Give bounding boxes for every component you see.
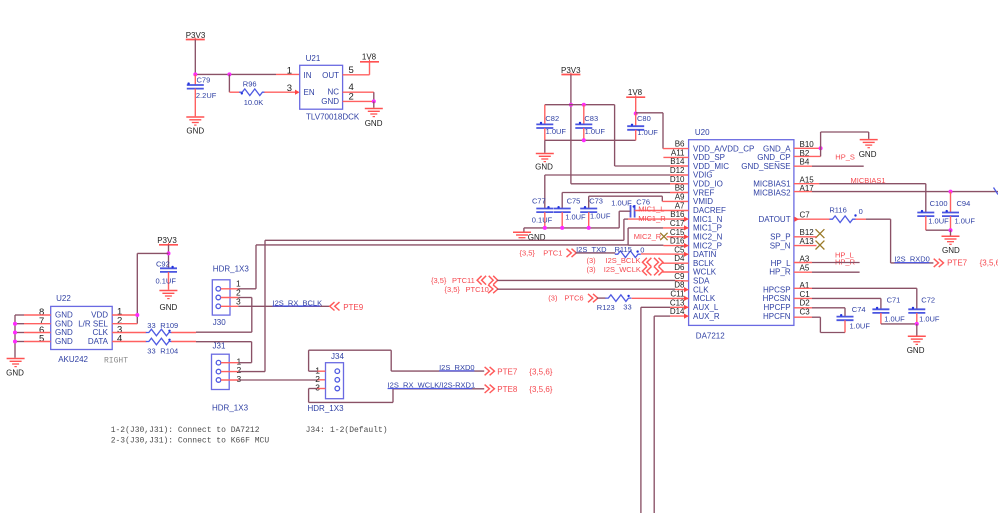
junction VDD branch bbox=[167, 251, 171, 255]
wire node row to U21 IN bbox=[195, 73, 299, 75]
power 1V8 (U21) bbox=[360, 53, 379, 62]
svg-text:DACREF: DACREF bbox=[693, 206, 726, 215]
U22 pin numbers bbox=[39, 307, 122, 345]
svg-text:PTE9: PTE9 bbox=[343, 303, 364, 312]
wire J34 pin3 to PTE8 bbox=[309, 389, 485, 403]
wire pin5 gnd bbox=[15, 341, 51, 343]
pin arrow C17 bbox=[684, 225, 689, 230]
junction NC/GND bbox=[372, 99, 376, 103]
svg-text:D12: D12 bbox=[670, 166, 685, 175]
junction C94 top bbox=[949, 190, 953, 194]
wire C82 gnd drop bbox=[544, 140, 546, 153]
svg-text:D10: D10 bbox=[670, 175, 685, 184]
wire B6 stub bbox=[663, 148, 689, 150]
wire J30 pin1 bbox=[221, 288, 256, 290]
wire CLK pin3 to R109 bbox=[112, 332, 146, 334]
resistor R123 33 bbox=[597, 295, 632, 312]
wire branch down to R96 bbox=[229, 74, 239, 92]
U20 left pin names bbox=[693, 144, 754, 320]
wire R104 to J31 pin1 bbox=[171, 342, 251, 363]
svg-text:C79: C79 bbox=[197, 76, 211, 85]
wire VDIG from C77 bbox=[545, 174, 689, 176]
svg-text:B4: B4 bbox=[800, 158, 810, 167]
svg-text:A15: A15 bbox=[800, 175, 815, 184]
svg-text:1.0UF: 1.0UF bbox=[884, 314, 905, 323]
net label I2S_TXD bbox=[576, 245, 607, 254]
svg-text:HDR_1X3: HDR_1X3 bbox=[212, 404, 249, 413]
svg-text:VMID: VMID bbox=[693, 197, 713, 206]
no-connect X on A13 bbox=[816, 241, 825, 250]
junction C83 bottom bbox=[582, 138, 586, 142]
svg-text:MICBIAS1: MICBIAS1 bbox=[851, 176, 886, 185]
wire P3V3 down to node bbox=[194, 40, 196, 75]
capacitor C80 bbox=[627, 114, 658, 141]
net label I2S_RX_WCLK/I2S-RXD1 bbox=[388, 381, 476, 390]
svg-text:GND: GND bbox=[942, 246, 960, 255]
svg-text:CLK: CLK bbox=[693, 285, 709, 294]
svg-text:R116: R116 bbox=[829, 206, 846, 215]
svg-text:0.1UF: 0.1UF bbox=[532, 215, 553, 224]
svg-text:C80: C80 bbox=[637, 114, 651, 123]
wire A11 stub bbox=[663, 156, 688, 158]
svg-text:NC: NC bbox=[327, 88, 339, 97]
svg-text:1.0UF: 1.0UF bbox=[955, 216, 976, 225]
ground HP_S bbox=[859, 140, 878, 159]
U20 left pin number labels bbox=[670, 140, 685, 317]
svg-text:{3,5,6}: {3,5,6} bbox=[529, 385, 552, 394]
wire D14 AUX_R down to bottom bbox=[654, 316, 688, 513]
svg-text:AUX_L: AUX_L bbox=[693, 303, 719, 312]
wire PTC10 to D8 CLK bbox=[497, 288, 688, 291]
svg-text:GND: GND bbox=[55, 328, 73, 337]
svg-text:C71: C71 bbox=[887, 295, 901, 304]
svg-text:A5: A5 bbox=[800, 263, 810, 272]
offpage I2S_BCLK bbox=[587, 256, 664, 267]
svg-text:33: 33 bbox=[147, 346, 155, 355]
wire DATA pin4 to R104 bbox=[112, 341, 146, 343]
wire D2 HPCFP to C74 bbox=[794, 308, 845, 317]
svg-text:D16: D16 bbox=[670, 237, 685, 246]
svg-text:C15: C15 bbox=[670, 228, 685, 237]
power P3V3 (top-left) bbox=[186, 31, 206, 40]
svg-text:GND: GND bbox=[55, 337, 73, 346]
connector J30 HDR_1X3 bbox=[212, 265, 249, 328]
capacitor C100 bbox=[917, 199, 949, 230]
wire C71-C72 bottom rail bbox=[881, 323, 917, 325]
svg-text:DATOUT: DATOUT bbox=[758, 215, 790, 224]
pin arrow D16 bbox=[684, 243, 689, 248]
svg-text:C9: C9 bbox=[674, 272, 685, 281]
svg-text:1.0UF: 1.0UF bbox=[585, 127, 606, 136]
svg-text:P3V3: P3V3 bbox=[186, 31, 206, 40]
ground under U22 bbox=[6, 359, 24, 378]
svg-text:HDR_1X3: HDR_1X3 bbox=[308, 404, 345, 413]
svg-text:1.0UF: 1.0UF bbox=[850, 322, 871, 331]
svg-text:{3,5}: {3,5} bbox=[520, 249, 536, 258]
offpage PTC11 bbox=[431, 276, 498, 285]
svg-text:R109: R109 bbox=[160, 321, 178, 330]
connector J31 HDR_1X3 bbox=[212, 341, 249, 412]
svg-text:GND: GND bbox=[535, 162, 553, 171]
svg-text:U20: U20 bbox=[695, 128, 710, 137]
capacitor C76 (horizontal) bbox=[611, 198, 650, 218]
svg-text:(3): (3) bbox=[548, 293, 558, 302]
offpage PTE8 bbox=[485, 385, 553, 395]
svg-text:(3): (3) bbox=[587, 265, 597, 274]
svg-text:AUX_R: AUX_R bbox=[693, 312, 720, 321]
junction pin7 bbox=[13, 322, 17, 326]
U22 pin names bbox=[55, 311, 109, 347]
svg-text:3: 3 bbox=[315, 382, 320, 392]
wire C15 MIC2_N stub bbox=[667, 236, 689, 238]
wire L/R SEL pin2 bbox=[112, 323, 137, 325]
capacitor C79 bbox=[187, 74, 217, 116]
svg-text:HPCFP: HPCFP bbox=[763, 303, 790, 312]
wire C100-C94 bottom rail bbox=[926, 229, 951, 231]
wire bottom rail C82-C80 bbox=[545, 139, 636, 141]
svg-text:C11: C11 bbox=[670, 290, 685, 299]
wire R116 to PTE7 bbox=[856, 219, 934, 263]
wire A7 DACREF from C76 bbox=[635, 210, 689, 212]
wire R96 to EN pin bbox=[264, 91, 295, 93]
svg-text:HPCSN: HPCSN bbox=[763, 294, 791, 303]
svg-text:33: 33 bbox=[623, 302, 631, 311]
wire D4 BCLK stub bbox=[662, 262, 688, 264]
wire J34 pin1 to PTE7 bbox=[309, 350, 485, 371]
svg-text:P3V3: P3V3 bbox=[157, 236, 177, 245]
svg-text:MIC2_P: MIC2_P bbox=[693, 241, 722, 250]
wire C7 DATOUT to R116 bbox=[794, 218, 830, 220]
svg-text:GND: GND bbox=[160, 303, 178, 312]
svg-text:C72: C72 bbox=[921, 295, 935, 304]
pin arrow D14 bbox=[684, 314, 689, 319]
svg-text:GND: GND bbox=[55, 311, 73, 320]
svg-text:CLK: CLK bbox=[92, 328, 108, 337]
wire down to ground bbox=[373, 101, 375, 107]
svg-text:GND: GND bbox=[907, 346, 925, 355]
svg-text:VREF: VREF bbox=[693, 188, 714, 197]
svg-text:OUT: OUT bbox=[322, 71, 339, 80]
svg-text:A9: A9 bbox=[675, 193, 685, 202]
svg-text:J31: J31 bbox=[213, 341, 226, 350]
svg-text:VDD_MIC: VDD_MIC bbox=[693, 162, 729, 171]
resistor R116 0 bbox=[829, 206, 862, 223]
svg-text:MIC1_N: MIC1_N bbox=[693, 215, 723, 224]
svg-text:GND: GND bbox=[321, 97, 339, 106]
svg-text:2: 2 bbox=[349, 91, 354, 102]
svg-text:HDR_1X3: HDR_1X3 bbox=[213, 265, 250, 274]
svg-text:D6: D6 bbox=[674, 263, 685, 272]
wire C75 top lead bbox=[561, 193, 563, 209]
ground under C82 bbox=[535, 154, 554, 172]
wire R123 to C11 MCLK bbox=[632, 297, 689, 299]
svg-text:VDD: VDD bbox=[91, 311, 108, 320]
U20 right pin number labels bbox=[800, 140, 815, 316]
junction at C79 top bbox=[193, 72, 197, 76]
offpage I2S_WCLK bbox=[587, 265, 664, 276]
resistor R104 33 bbox=[146, 338, 178, 355]
ground under C94 bbox=[942, 236, 961, 255]
offpage PTE9 bbox=[330, 302, 364, 312]
wire gnd riser and top run bbox=[821, 132, 869, 156]
svg-text:C17: C17 bbox=[670, 219, 685, 228]
wire B10 GND_A stub bbox=[794, 147, 821, 149]
svg-text:1.0UF: 1.0UF bbox=[928, 216, 949, 225]
svg-text:D2: D2 bbox=[800, 299, 811, 308]
svg-text:AKU242: AKU242 bbox=[58, 355, 88, 364]
capacitor C77 bbox=[532, 196, 554, 228]
pin arrow C11 bbox=[684, 296, 689, 301]
svg-text:1-2(J30,J31): Connect to DA721: 1-2(J30,J31): Connect to DA7212 bbox=[111, 426, 260, 435]
wire C13 AUX_L down to bottom bbox=[641, 307, 689, 513]
svg-text:B14: B14 bbox=[670, 157, 685, 166]
resistor R115 0 bbox=[615, 245, 645, 258]
svg-text:R96: R96 bbox=[243, 80, 257, 89]
capacitor C75 bbox=[554, 196, 586, 228]
capacitor C82 bbox=[536, 105, 566, 141]
wire A15 MICBIAS1 bbox=[794, 184, 926, 213]
svg-text:J34:: J34: bbox=[306, 426, 325, 435]
net label I2S_RXD0 (right) bbox=[894, 255, 929, 264]
wire P3V3 down to C92 bbox=[168, 245, 170, 268]
junction C83 top bbox=[582, 103, 586, 107]
svg-text:HP_S: HP_S bbox=[835, 152, 855, 161]
svg-text:C75: C75 bbox=[567, 196, 581, 205]
svg-text:HP_R: HP_R bbox=[769, 268, 791, 277]
svg-text:1.0UF: 1.0UF bbox=[546, 127, 567, 136]
wire J30 pin3 to PTE9 bbox=[221, 305, 330, 307]
offpage PTC1 bbox=[520, 249, 577, 258]
junction C77 bbox=[543, 226, 547, 230]
wire VDD pin1 bbox=[112, 314, 137, 316]
U21 pin names bbox=[304, 71, 340, 106]
svg-text:B6: B6 bbox=[675, 140, 685, 149]
svg-text:MIC2_N: MIC2_N bbox=[693, 233, 723, 242]
svg-text:MIC2_R: MIC2_R bbox=[634, 232, 662, 241]
svg-text:SDA: SDA bbox=[693, 277, 710, 286]
svg-text:1.0UF: 1.0UF bbox=[565, 212, 586, 221]
svg-text:{3,5,6: {3,5,6 bbox=[980, 259, 998, 268]
svg-text:PTE8: PTE8 bbox=[497, 385, 518, 394]
pin arrow B16 bbox=[684, 217, 689, 222]
wire branch to VDD riser bbox=[137, 253, 168, 323]
svg-text:U22: U22 bbox=[56, 294, 71, 303]
wire 1V8 over to B6/A11 bbox=[636, 113, 663, 149]
junction C73 bbox=[587, 226, 591, 230]
IC U20 DA7212 box bbox=[689, 128, 794, 341]
svg-text:C74: C74 bbox=[852, 305, 866, 314]
svg-text:33: 33 bbox=[147, 321, 155, 330]
svg-text:VDD_SP: VDD_SP bbox=[693, 153, 725, 162]
svg-text:0: 0 bbox=[859, 207, 863, 216]
svg-text:1.0UF: 1.0UF bbox=[637, 128, 658, 137]
svg-text:DATA: DATA bbox=[88, 337, 109, 346]
svg-text:MCLK: MCLK bbox=[693, 294, 716, 303]
J34 pin numbers bbox=[315, 366, 320, 393]
svg-text:MIC1_L: MIC1_L bbox=[638, 205, 664, 214]
wire A5 HP_R stub bbox=[794, 271, 860, 273]
ground under U21 bbox=[365, 109, 383, 129]
pin arrow D8 bbox=[684, 287, 689, 292]
pin arrow C13 bbox=[684, 305, 689, 310]
wire C17 MIC1_P bbox=[628, 228, 689, 245]
long wire MIC1_R to J31 pin2 bbox=[265, 240, 624, 371]
svg-text:EN: EN bbox=[304, 88, 315, 97]
junction C94 bottom bbox=[949, 228, 953, 232]
junction C80 top bbox=[634, 112, 638, 116]
wire A13 SP_N stub bbox=[794, 245, 817, 247]
ground under C79 bbox=[186, 117, 204, 136]
capacitor C92 bbox=[156, 260, 178, 290]
wire PTC6 to R123 bbox=[597, 297, 606, 299]
wire VREF from C75 bbox=[562, 192, 688, 194]
svg-text:L/R SEL: L/R SEL bbox=[78, 319, 108, 328]
wire A3 HP_L stub bbox=[794, 262, 860, 264]
svg-text:1-2(Default): 1-2(Default) bbox=[330, 426, 388, 435]
wire P3V3 down to VDD_IO corner bbox=[570, 75, 572, 184]
wire rail down to VDD_MIC bbox=[615, 105, 689, 166]
wire gnd rail under C77 caps bbox=[524, 227, 619, 229]
junction VDD bbox=[135, 313, 139, 317]
svg-text:VDD_A/VDD_CP: VDD_A/VDD_CP bbox=[693, 144, 754, 153]
svg-text:(3): (3) bbox=[587, 256, 597, 265]
wire D6 WCLK stub bbox=[662, 271, 688, 273]
junction C72 bottom bbox=[915, 322, 919, 326]
net label I2S_RX_BCLK bbox=[273, 298, 323, 307]
svg-text:C100: C100 bbox=[930, 199, 948, 208]
svg-text:D8: D8 bbox=[674, 281, 685, 290]
svg-text:C7: C7 bbox=[800, 211, 811, 220]
wire B2 GND_CP stub bbox=[794, 155, 821, 157]
net label I2S_RXD0 (bottom) bbox=[439, 363, 474, 372]
capacitor C72 bbox=[908, 295, 940, 324]
svg-text:{3,5,6}: {3,5,6} bbox=[529, 368, 552, 377]
resistor R109 33 bbox=[146, 321, 178, 336]
svg-text:DA7212: DA7212 bbox=[696, 332, 725, 341]
offpage PTC10 bbox=[445, 285, 498, 294]
wire J31 pin1 bbox=[221, 362, 252, 364]
svg-text:C1: C1 bbox=[800, 290, 811, 299]
wire J31 pin2 bbox=[221, 371, 265, 373]
wire B4 GND_SENSE stub bbox=[794, 165, 864, 167]
svg-text:I2S_WCLK: I2S_WCLK bbox=[604, 265, 641, 274]
svg-text:GND: GND bbox=[859, 150, 877, 159]
offpage PTC6 bbox=[548, 293, 598, 302]
offpage PTE7 (right) bbox=[934, 259, 998, 268]
wire A1 HPCSP to C72 bbox=[794, 288, 917, 309]
svg-text:1: 1 bbox=[287, 66, 292, 77]
offpage edge mark bbox=[994, 188, 998, 195]
junction pin6 bbox=[13, 331, 17, 335]
svg-text:A13: A13 bbox=[800, 237, 815, 246]
svg-text:MIC1_P: MIC1_P bbox=[693, 224, 722, 233]
J31 pin numbers bbox=[237, 356, 242, 384]
wire D16 MIC2_P bbox=[628, 244, 689, 246]
wire pin6 gnd bbox=[15, 332, 51, 334]
svg-text:BCLK: BCLK bbox=[693, 259, 715, 268]
junction B10 bbox=[819, 146, 823, 150]
svg-text:C3: C3 bbox=[800, 307, 811, 316]
svg-text:J34: J34 bbox=[331, 352, 344, 361]
J30 pin numbers bbox=[236, 279, 241, 307]
svg-text:SP_P: SP_P bbox=[770, 233, 790, 242]
wire pin7 gnd bbox=[15, 323, 51, 325]
svg-text:D14: D14 bbox=[670, 307, 685, 316]
capacitor C94 bbox=[942, 192, 975, 231]
svg-text:J30: J30 bbox=[213, 318, 226, 327]
wire VMID from C73 bbox=[589, 196, 689, 201]
svg-text:B8: B8 bbox=[675, 184, 685, 193]
junction P3V3 top rail bbox=[569, 103, 573, 107]
svg-text:D4: D4 bbox=[674, 254, 685, 263]
svg-text:C73: C73 bbox=[589, 196, 603, 205]
wire PTC1 to R115 bbox=[576, 252, 616, 254]
connector J34 HDR_1X3 bbox=[308, 352, 345, 413]
J31 pin circles bbox=[216, 360, 221, 382]
svg-text:10.0K: 10.0K bbox=[244, 98, 264, 107]
svg-text:GND: GND bbox=[365, 119, 383, 128]
svg-text:1.0UF: 1.0UF bbox=[919, 314, 940, 323]
pin arrow C15 bbox=[684, 234, 689, 239]
svg-text:3: 3 bbox=[237, 374, 242, 384]
capacitor C83 bbox=[575, 105, 605, 141]
wire pin8 gnd bbox=[15, 315, 51, 358]
ground under C92 bbox=[159, 291, 177, 312]
J34 pin circles bbox=[335, 369, 340, 391]
svg-text:PTE7: PTE7 bbox=[497, 368, 518, 377]
svg-text:HP_L: HP_L bbox=[771, 259, 792, 268]
svg-text:1.0UF: 1.0UF bbox=[590, 211, 611, 220]
svg-text:C92: C92 bbox=[156, 260, 170, 269]
svg-text:P3V3: P3V3 bbox=[561, 66, 581, 75]
svg-text:C13: C13 bbox=[670, 298, 685, 307]
ground under C72 bbox=[907, 336, 926, 354]
wire OUT to 1V8 bbox=[343, 62, 370, 75]
svg-text:A7: A7 bbox=[675, 201, 685, 210]
svg-text:0: 0 bbox=[640, 245, 644, 254]
svg-text:5: 5 bbox=[39, 334, 44, 345]
wire VDD_IO from P3V3 bbox=[571, 183, 689, 185]
svg-text:GND: GND bbox=[186, 127, 204, 136]
wire top rail C82-C83 bbox=[545, 104, 615, 106]
wire J31 pin3 to J34 pin2 bbox=[221, 379, 326, 381]
svg-text:{3,5}: {3,5} bbox=[445, 285, 461, 294]
svg-text:R115: R115 bbox=[615, 245, 632, 254]
svg-text:1V8: 1V8 bbox=[628, 88, 643, 97]
svg-text:TLV70018DCK: TLV70018DCK bbox=[306, 113, 360, 122]
svg-text:RIGHT: RIGHT bbox=[104, 357, 128, 366]
IC U22 AKU242 box bbox=[51, 294, 112, 364]
svg-text:C94: C94 bbox=[957, 199, 971, 208]
svg-text:WCLK: WCLK bbox=[693, 268, 717, 277]
svg-text:C5: C5 bbox=[674, 245, 685, 254]
svg-text:MIC1_R: MIC1_R bbox=[638, 214, 666, 223]
svg-text:GND_A: GND_A bbox=[763, 144, 791, 153]
wire 1V8 down bbox=[635, 97, 637, 113]
svg-text:3: 3 bbox=[287, 83, 292, 94]
pin arrow EN bbox=[295, 90, 300, 95]
svg-text:C83: C83 bbox=[584, 114, 598, 123]
svg-text:A11: A11 bbox=[671, 148, 685, 157]
offpage PTE7 (bottom) bbox=[485, 367, 553, 377]
U21 pin numbers bbox=[287, 65, 354, 102]
svg-text:VDD_IO: VDD_IO bbox=[693, 180, 723, 189]
power 1V8 (middle) bbox=[626, 88, 645, 97]
svg-text:2-3(J30,J31): Connect to K66F: 2-3(J30,J31): Connect to K66F MCU bbox=[111, 437, 270, 446]
capacitor C71 bbox=[872, 295, 905, 324]
note J30 J31 connections bbox=[111, 426, 270, 445]
wire C3 HPCFN to C74 bottom bbox=[794, 317, 845, 332]
